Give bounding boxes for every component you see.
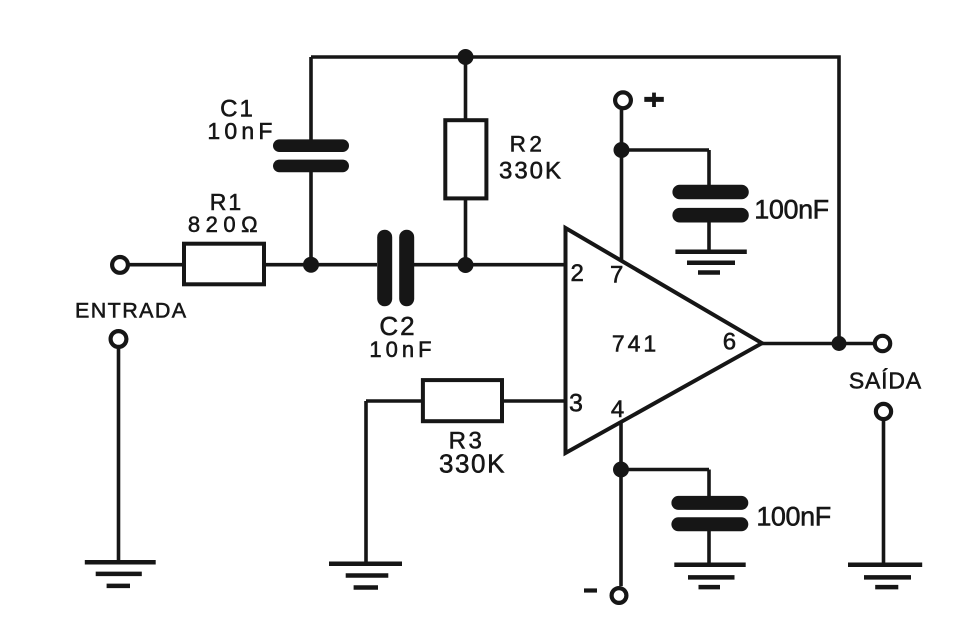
svg-text:2: 2 — [571, 260, 584, 287]
svg-text:6: 6 — [723, 328, 736, 355]
svg-text:SAÍDA: SAÍDA — [849, 368, 922, 394]
svg-text:100nF: 100nF — [754, 195, 829, 225]
svg-text:741: 741 — [612, 331, 659, 357]
svg-text:R1: R1 — [210, 189, 243, 215]
svg-text:4: 4 — [611, 396, 624, 423]
svg-text:820Ω: 820Ω — [188, 212, 263, 237]
svg-text:330K: 330K — [499, 158, 563, 185]
svg-text:3: 3 — [569, 390, 583, 418]
svg-text:7: 7 — [610, 262, 623, 289]
svg-text:330K: 330K — [439, 448, 506, 478]
svg-text:100nF: 100nF — [756, 502, 831, 532]
svg-text:R2: R2 — [510, 132, 546, 157]
svg-text:10nF: 10nF — [207, 118, 276, 144]
svg-text:10nF: 10nF — [369, 337, 435, 362]
svg-text:ENTRADA: ENTRADA — [75, 299, 188, 323]
